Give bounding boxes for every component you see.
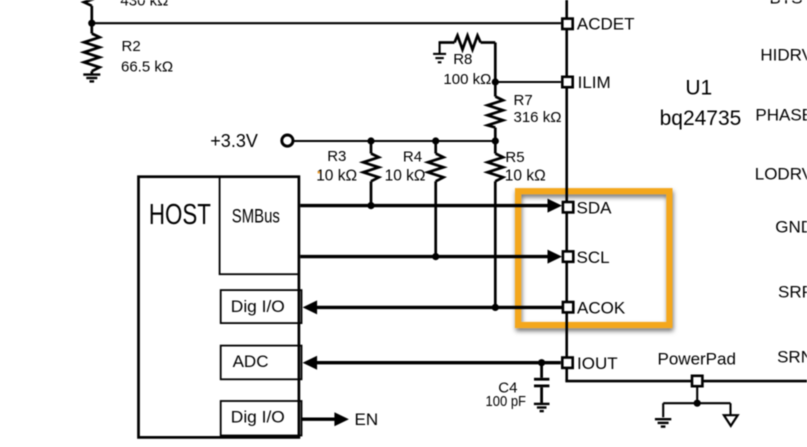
node: SCL/R4 junction (432, 253, 439, 260)
wire: right drop (729, 403, 731, 415)
wire: +3.3V rail (293, 140, 495, 142)
svg-text:R4: R4 (403, 148, 422, 165)
wire: ground spreader (663, 402, 730, 404)
svg-text:430 kΩ: 430 kΩ (120, 0, 168, 10)
node: rail/R3 junction (367, 137, 374, 144)
svg-text:HOST: HOST (149, 199, 211, 231)
wire: IOUT (pin to ADC) (316, 361, 561, 364)
svg-text:R2: R2 (122, 38, 141, 55)
wire: PowerPad stem (696, 386, 698, 403)
HOST box (139, 177, 299, 438)
svg-text:bq24735: bq24735 (660, 107, 742, 130)
node: rail/R5/R7 junction (492, 137, 499, 144)
node: R8/R7/ILIM junction (492, 78, 499, 85)
svg-text:SDA: SDA (577, 198, 613, 217)
node: SDA/R3 junction (367, 202, 374, 209)
highlight box (orange) around SDA/SCL/ACOK (518, 191, 669, 325)
svg-text:66.5 kΩ: 66.5 kΩ (121, 59, 173, 76)
svg-text:10 kΩ: 10 kΩ (505, 168, 546, 185)
node: PowerPad ground junction (694, 400, 701, 407)
IC U1 bottom edge (565, 380, 807, 383)
pin PowerPad (692, 376, 702, 386)
HOST SMBus sub-box (220, 177, 299, 275)
HOST Dig I/O sub-box (top) (221, 290, 302, 323)
svg-text:LODRV: LODRV (755, 165, 807, 184)
svg-text:10 kΩ: 10 kΩ (316, 168, 357, 185)
wire: SCL (SMBus to pin) (300, 255, 548, 258)
svg-text:GND: GND (775, 218, 807, 237)
svg-text:SRN: SRN (777, 348, 807, 367)
svg-text:ACDET: ACDET (577, 15, 635, 34)
svg-text:U1: U1 (685, 77, 712, 100)
svg-text:SCL: SCL (577, 248, 610, 267)
svg-text:R7: R7 (514, 92, 533, 109)
arrowhead: EN (334, 412, 349, 426)
resistor R4 (428, 141, 444, 257)
pin IOUT (562, 358, 572, 368)
ground (below C4) (534, 404, 550, 411)
node: IOUT/C4 junction (538, 359, 545, 366)
svg-text:100 kΩ: 100 kΩ (443, 71, 491, 88)
ground (R8 left) (433, 42, 446, 63)
arrowhead: IOUT into ADC (303, 356, 318, 370)
svg-text:IOUT: IOUT (577, 354, 618, 373)
svg-text:PowerPad: PowerPad (658, 350, 736, 369)
arrowhead: SCL into pin (548, 250, 563, 264)
resistor R8 (439, 36, 496, 83)
wire: SDA (SMBus to pin) (300, 204, 548, 207)
node: rail/R4 junction (432, 137, 439, 144)
arrowhead: SDA into pin (548, 199, 563, 213)
svg-text:10 kΩ: 10 kΩ (385, 168, 426, 185)
wire: EN from Dig I/O (302, 418, 336, 421)
ground (PowerPad left) (655, 419, 671, 426)
pin ACOK (563, 302, 573, 312)
svg-text:SRP: SRP (778, 283, 807, 302)
capacitor C4 (534, 363, 549, 403)
svg-text:Dig I/O: Dig I/O (231, 408, 285, 427)
wire: junction to ACDET pin (92, 22, 561, 24)
node: R1/R2/ACDET junction (88, 20, 95, 27)
pin ILIM (562, 77, 572, 87)
svg-text:R5: R5 (505, 149, 524, 166)
wire: left drop (662, 403, 664, 417)
svg-text:Dig I/O: Dig I/O (231, 297, 285, 316)
svg-text:PHASE: PHASE (755, 106, 807, 125)
wire: junction to ILIM pin (495, 81, 561, 83)
svg-text:SMBus: SMBus (232, 206, 280, 227)
svg-text:ACOK: ACOK (577, 298, 626, 317)
resistor R3 (363, 141, 379, 206)
svg-text:R8: R8 (453, 51, 472, 68)
node: ACOK/R5 junction (492, 304, 499, 311)
arrowhead: ACOK into Dig I/O (303, 300, 318, 314)
svg-text:BTST: BTST (770, 0, 807, 8)
IC U1 left edge (565, 0, 568, 381)
wire: ACOK (pin to Dig I/O) (316, 306, 562, 309)
svg-text:316 kΩ: 316 kΩ (514, 109, 562, 126)
svg-text:HIDRV: HIDRV (760, 46, 807, 65)
svg-text:+3.3V: +3.3V (210, 131, 258, 151)
resistor R1 (partial, top) (84, 0, 100, 23)
HOST ADC sub-box (221, 346, 302, 380)
stray orange speck artifact (318, 171, 320, 173)
pin SCL (563, 251, 573, 261)
svg-text:100 pF: 100 pF (486, 393, 527, 410)
resistor R7 (488, 82, 504, 141)
svg-text:ADC: ADC (233, 352, 269, 371)
terminal: +3.3V open circle (282, 135, 293, 146)
pin SDA (563, 202, 573, 212)
svg-text:EN: EN (355, 410, 379, 429)
resistor R2 (84, 23, 100, 74)
resistor R5 (488, 141, 504, 307)
chassis ground triangle (PowerPad right) (724, 415, 738, 426)
svg-text:R3: R3 (327, 148, 346, 165)
ground (below R2) (83, 75, 100, 82)
HOST Dig I/O sub-box (bottom) (221, 401, 302, 436)
svg-text:ILIM: ILIM (578, 73, 611, 92)
pin ACDET (562, 19, 572, 29)
